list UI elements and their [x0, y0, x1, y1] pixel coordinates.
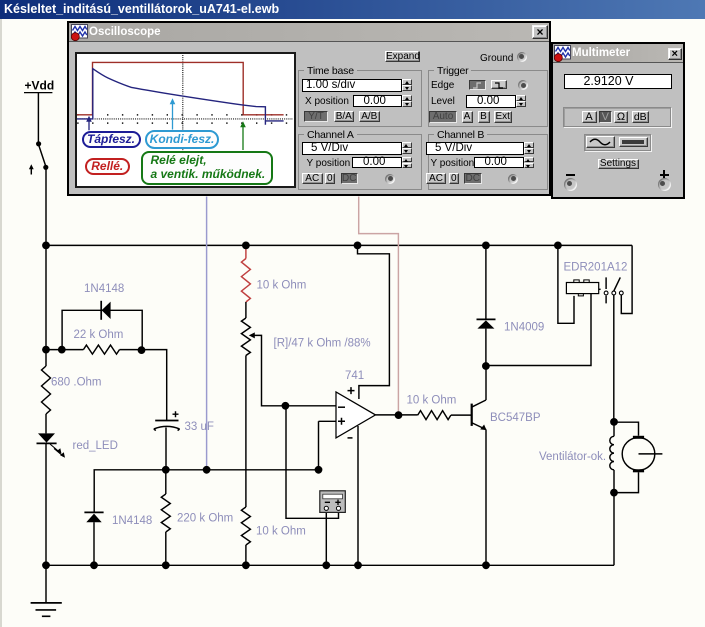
svg-text:red_LED: red_LED: [73, 440, 118, 452]
svg-text:22 k Ohm: 22 k Ohm: [74, 329, 124, 341]
svg-text:EDR201A12: EDR201A12: [564, 262, 628, 274]
svg-text:[R]/47 k Ohm /88%: [R]/47 k Ohm /88%: [274, 338, 371, 350]
svg-text:10 k Ohm: 10 k Ohm: [407, 395, 457, 407]
svg-text:33 uF: 33 uF: [185, 421, 214, 433]
svg-text:Ventilátor-ok.: Ventilátor-ok.: [539, 451, 606, 463]
svg-text:10 k Ohm: 10 k Ohm: [257, 280, 307, 292]
svg-text:220 k Ohm: 220 k Ohm: [177, 513, 233, 525]
svg-text:10 k Ohm: 10 k Ohm: [256, 526, 306, 538]
svg-text:1N4148: 1N4148: [112, 515, 152, 527]
svg-text:1N4009: 1N4009: [504, 322, 544, 334]
svg-text:741: 741: [345, 370, 364, 382]
svg-text:1N4148: 1N4148: [84, 283, 124, 295]
svg-text:+Vdd: +Vdd: [25, 79, 55, 93]
svg-text:BC547BP: BC547BP: [490, 412, 541, 424]
svg-text:680 .Ohm: 680 .Ohm: [51, 377, 102, 389]
